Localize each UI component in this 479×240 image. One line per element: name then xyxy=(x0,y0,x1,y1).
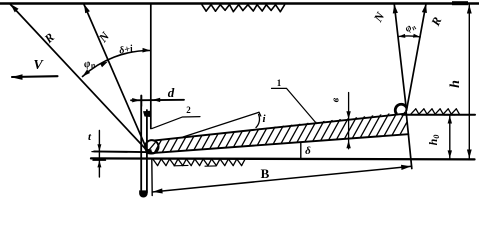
ground hatching right xyxy=(411,109,459,114)
svg-text:V: V xyxy=(33,58,44,73)
svg-text:φn: φn xyxy=(403,20,418,35)
svg-text:d: d xyxy=(168,85,175,100)
wire ground surface right xyxy=(402,114,475,116)
t tick lower xyxy=(93,159,106,161)
d arrow right xyxy=(152,98,160,102)
svg-text:2: 2 xyxy=(186,105,191,115)
wire top ground surface line xyxy=(0,2,479,5)
blade top filled wedge xyxy=(143,111,150,117)
angle arc i xyxy=(256,115,259,128)
svg-text:h: h xyxy=(448,80,463,88)
blade tip junction xyxy=(146,149,153,155)
arrowhead N left xyxy=(84,4,90,13)
ground hatching below floor xyxy=(153,159,245,166)
arrowhead N right xyxy=(393,4,398,13)
B left tick xyxy=(151,159,153,196)
angle arc left (phi_n, delta+i) xyxy=(83,50,151,76)
h0 dimension line xyxy=(449,115,451,159)
svg-text:B: B xyxy=(261,166,270,181)
d tick left xyxy=(141,96,143,107)
t dimension line xyxy=(98,131,100,178)
arc arrowhead at N crossing xyxy=(100,62,108,68)
chip thickness arrow lower xyxy=(346,140,350,148)
d arrow left xyxy=(132,98,140,102)
blade bottom cap xyxy=(140,191,147,197)
arrowhead R left xyxy=(11,4,19,12)
i reference line xyxy=(183,112,259,137)
svg-text:h0: h0 xyxy=(426,135,441,146)
svg-text:φn: φn xyxy=(83,56,97,71)
chip right end face xyxy=(406,111,412,169)
chip curl right xyxy=(395,104,406,113)
h arrow top xyxy=(467,5,472,14)
chip top edge xyxy=(154,114,407,141)
chip thickness arrow upper xyxy=(346,111,350,119)
wire cut floor line xyxy=(91,158,475,159)
B dimension line xyxy=(152,166,411,192)
wire thick reference tick near h arrow xyxy=(452,1,468,5)
wire ground surface left of blade xyxy=(94,150,152,153)
B arrow left xyxy=(153,188,163,193)
t arrow upper xyxy=(97,144,101,151)
arc arrowhead at vertical end xyxy=(142,48,150,53)
ground surface hatching top xyxy=(202,5,285,12)
t arrow lower xyxy=(97,160,101,167)
arc arrowhead at R end xyxy=(83,70,91,77)
h arrow bottom xyxy=(467,150,472,159)
force line N left xyxy=(84,5,148,152)
force line R left xyxy=(11,5,148,152)
h0 tick top xyxy=(444,114,455,116)
wire vertical reference line above blade xyxy=(150,4,152,129)
leader line for label 1 xyxy=(272,88,317,123)
svg-text:i: i xyxy=(262,113,266,125)
chip bottom edge xyxy=(151,134,409,153)
arrowhead R right xyxy=(422,4,427,13)
blade left edge xyxy=(140,96,142,193)
svg-text:в: в xyxy=(331,97,342,102)
svg-text:δ+i: δ+i xyxy=(118,43,134,56)
velocity arrowhead xyxy=(11,74,23,80)
chip curl inner hatch xyxy=(149,143,156,151)
dimension line d xyxy=(131,99,184,102)
svg-text:R: R xyxy=(428,15,444,29)
blade right edge xyxy=(146,110,148,193)
angle arc phi_n right xyxy=(398,35,420,38)
svg-text:δ: δ xyxy=(305,145,311,157)
velocity arrow V shaft xyxy=(12,75,58,78)
delta angle tick xyxy=(300,143,302,158)
h dimension line xyxy=(468,4,470,159)
force line R right xyxy=(407,4,427,111)
chip curl circle at blade xyxy=(145,140,158,153)
h0 arrow upper xyxy=(448,116,452,124)
arc arrowhead right 1 xyxy=(398,34,405,38)
t tick upper xyxy=(92,151,106,153)
arc arrowhead right 2 xyxy=(413,34,420,38)
chip thickness dim line xyxy=(348,93,350,149)
svg-text:1: 1 xyxy=(277,78,282,88)
svg-text:N: N xyxy=(95,28,113,45)
i line end tick xyxy=(259,112,261,116)
leader line for label 2 xyxy=(152,117,200,129)
force line N right xyxy=(394,5,406,111)
B arrow right xyxy=(401,165,411,170)
h0 arrow lower xyxy=(448,150,452,158)
chip hatched area xyxy=(152,110,436,157)
svg-text:R: R xyxy=(41,30,57,46)
svg-text:t: t xyxy=(88,131,92,143)
svg-text:N: N xyxy=(370,9,388,26)
